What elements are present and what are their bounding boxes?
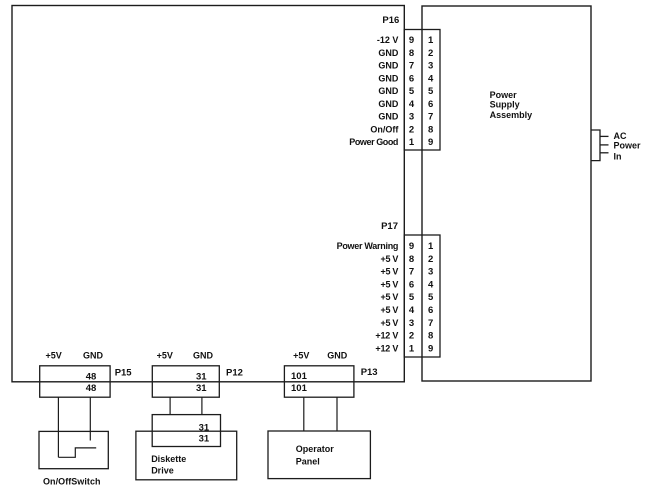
svg-text:+5 V: +5 V [381, 305, 399, 315]
connector P16 [404, 30, 440, 151]
svg-text:9: 9 [428, 344, 433, 355]
power supply assembly label [490, 90, 533, 120]
svg-text:Drive: Drive [151, 465, 174, 475]
svg-text:7: 7 [409, 61, 414, 72]
P16 pin 6 (GND) [378, 73, 434, 84]
svg-text:GND: GND [193, 350, 214, 360]
svg-text:1: 1 [409, 137, 415, 148]
svg-text:GND: GND [378, 61, 399, 71]
svg-text:7: 7 [428, 112, 433, 123]
svg-text:3: 3 [409, 112, 414, 123]
P16 pin 8 (GND) [378, 48, 433, 59]
wire P12 GND to diskette drive [201, 397, 203, 414]
svg-text:P16: P16 [382, 15, 399, 26]
svg-text:8: 8 [409, 48, 414, 59]
svg-text:5: 5 [428, 292, 434, 303]
diskette drive [136, 431, 237, 480]
svg-text:6: 6 [409, 73, 414, 84]
P13 wire number 101 (bottom) [291, 383, 308, 394]
connector P13 [284, 366, 354, 397]
svg-text:+5 V: +5 V [381, 279, 399, 289]
svg-text:4: 4 [409, 99, 415, 110]
svg-text:1: 1 [409, 344, 415, 355]
svg-text:6: 6 [409, 279, 414, 290]
P17 pin 5 (+5 V) [381, 292, 434, 303]
svg-text:Operator: Operator [296, 444, 335, 454]
svg-text:2: 2 [409, 331, 414, 342]
svg-text:Diskette: Diskette [151, 454, 186, 464]
P17 pin 4 (+5 V) [381, 305, 434, 316]
wire P15 GND to on/off switch [89, 397, 91, 440]
P13 label [361, 367, 378, 378]
svg-text:3: 3 [409, 318, 414, 329]
diskette connector wire number 31 (top) [199, 422, 210, 433]
P16 pin 5 (GND) [378, 86, 434, 97]
AC power in label [614, 131, 642, 162]
P13 wire number 101 (top) [291, 371, 308, 382]
svg-text:GND: GND [378, 86, 399, 96]
svg-text:7: 7 [409, 267, 414, 278]
svg-text:48: 48 [86, 383, 97, 394]
svg-text:P17: P17 [381, 221, 398, 232]
svg-text:+5 V: +5 V [381, 318, 399, 328]
svg-text:6: 6 [428, 305, 433, 316]
power supply assembly [422, 6, 591, 381]
svg-text:P15: P15 [115, 367, 133, 378]
diskette drive label [151, 454, 186, 475]
svg-text:GND: GND [327, 350, 348, 360]
svg-text:31: 31 [196, 383, 207, 394]
svg-text:GND: GND [378, 112, 399, 122]
connector P17 [404, 235, 440, 357]
svg-text:Power Good: Power Good [349, 137, 398, 147]
P13 GND pin label [327, 350, 348, 360]
svg-text:9: 9 [409, 35, 414, 46]
AC power in connector [591, 130, 609, 161]
switch contact [58, 448, 96, 457]
svg-text:+12 V: +12 V [375, 344, 398, 354]
svg-text:5: 5 [409, 292, 415, 303]
P17 label [381, 221, 398, 232]
P16 label [382, 15, 399, 26]
operator panel label [296, 444, 335, 466]
svg-text:On/Off: On/Off [370, 124, 399, 134]
svg-text:101: 101 [291, 383, 308, 394]
on/off switch [39, 431, 108, 468]
wire P12 +5V to diskette drive [169, 397, 171, 414]
svg-text:9: 9 [428, 137, 433, 148]
P15 +5V pin label [45, 350, 61, 360]
svg-text:+5V: +5V [45, 350, 61, 360]
svg-text:+12 V: +12 V [375, 331, 398, 341]
P17 pin 6 (+5 V) [381, 279, 434, 290]
svg-text:GND: GND [378, 73, 399, 83]
svg-text:31: 31 [199, 434, 210, 445]
svg-text:GND: GND [378, 48, 399, 58]
wire P13 +5V to operator panel [303, 397, 305, 431]
svg-text:Supply: Supply [490, 100, 520, 110]
svg-text:48: 48 [86, 372, 97, 383]
svg-text:2: 2 [428, 254, 433, 265]
svg-text:4: 4 [428, 279, 434, 290]
svg-text:1: 1 [428, 35, 434, 46]
svg-text:5: 5 [409, 86, 415, 97]
on/off switch label [43, 476, 101, 486]
svg-text:8: 8 [428, 331, 433, 342]
P12 GND pin label [193, 350, 214, 360]
P15 wire number 48 (bottom) [86, 383, 97, 394]
P17 pin 9 (Power Warning) [337, 241, 434, 252]
connector P12 [152, 366, 219, 397]
P17 pin 2 (+12 V) [375, 331, 433, 342]
P12 wire number 31 (bottom) [196, 383, 207, 394]
wire P15 +5V to on/off switch [57, 397, 59, 457]
P17 pin 1 (+12 V) [375, 344, 433, 355]
svg-text:3: 3 [428, 61, 433, 72]
P12 label [226, 367, 243, 378]
P15 label [115, 367, 133, 378]
svg-text:+5V: +5V [293, 350, 309, 360]
system board [12, 6, 404, 382]
svg-text:8: 8 [409, 254, 414, 265]
wire P13 GND to operator panel [336, 397, 338, 431]
svg-text:31: 31 [196, 372, 207, 383]
svg-text:Power Warning: Power Warning [337, 241, 399, 251]
svg-text:8: 8 [428, 124, 433, 135]
svg-text:+5 V: +5 V [381, 254, 399, 264]
svg-text:9: 9 [409, 241, 414, 252]
P16 pin 2 (On/Off) [370, 124, 433, 135]
diskette connector wire number 31 (bottom) [199, 434, 210, 445]
svg-text:4: 4 [428, 73, 434, 84]
svg-text:3: 3 [428, 267, 433, 278]
svg-text:4: 4 [409, 305, 415, 316]
P15 wire number 48 (top) [86, 372, 97, 383]
svg-text:P13: P13 [361, 367, 378, 378]
P17 pin 8 (+5 V) [381, 254, 434, 265]
diskette drive connector [152, 415, 220, 447]
P16 pin 1 (Power Good) [349, 137, 433, 148]
P16 pin 7 (GND) [378, 61, 433, 72]
svg-text:Assembly: Assembly [490, 110, 533, 120]
svg-text:On/OffSwitch: On/OffSwitch [43, 476, 101, 486]
svg-text:P12: P12 [226, 367, 243, 378]
svg-text:101: 101 [291, 371, 308, 382]
svg-text:7: 7 [428, 318, 433, 329]
P12 wire number 31 (top) [196, 372, 207, 383]
svg-text:Panel: Panel [296, 457, 320, 467]
svg-text:5: 5 [428, 86, 434, 97]
svg-text:In: In [614, 152, 622, 162]
svg-text:+5 V: +5 V [381, 292, 399, 302]
P16 pin 4 (GND) [378, 99, 433, 110]
P16 pin 3 (GND) [378, 112, 433, 123]
P16 pin 9 (-12 V) [377, 35, 434, 46]
svg-text:+5 V: +5 V [381, 267, 399, 277]
operator panel [268, 431, 370, 479]
svg-text:2: 2 [428, 48, 433, 59]
svg-text:GND: GND [83, 350, 104, 360]
P15 GND pin label [83, 350, 104, 360]
svg-text:-12 V: -12 V [377, 35, 399, 45]
svg-text:Power: Power [490, 90, 518, 100]
svg-text:Power: Power [614, 141, 642, 151]
connector P15 [40, 366, 110, 397]
svg-text:1: 1 [428, 241, 434, 252]
P17 pin 3 (+5 V) [381, 318, 434, 329]
svg-text:+5V: +5V [157, 350, 173, 360]
P13 +5V pin label [293, 350, 309, 360]
P12 +5V pin label [157, 350, 173, 360]
P17 pin 7 (+5 V) [381, 267, 434, 278]
svg-text:2: 2 [409, 124, 414, 135]
svg-text:GND: GND [378, 99, 399, 109]
svg-text:6: 6 [428, 99, 433, 110]
